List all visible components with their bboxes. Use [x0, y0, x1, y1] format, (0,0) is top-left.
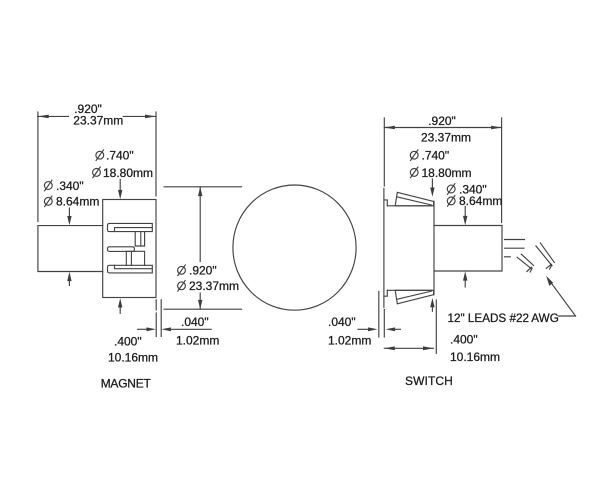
svg-text:.740": .740": [106, 149, 134, 163]
svg-text:.340": .340": [56, 179, 84, 193]
svg-text:23.37mm: 23.37mm: [421, 131, 471, 145]
svg-text:10.16mm: 10.16mm: [450, 350, 500, 364]
switch barrel: [434, 226, 502, 272]
switch top flange wedge: [395, 192, 433, 206]
magnet barrel: [38, 226, 103, 272]
dim switch .920 line: [384, 127, 501, 129]
dim switch d340 arrow down: [464, 207, 466, 220]
svg-text:.400": .400": [450, 333, 478, 347]
svg-text:8.64mm: 8.64mm: [56, 195, 99, 209]
label circle d.920: [178, 265, 186, 276]
svg-text:.040": .040": [181, 315, 209, 329]
dim switch d740 arrow up: [431, 304, 433, 312]
dim switch .920 extension lines: [383, 118, 385, 186]
svg-text:.040": .040": [328, 315, 356, 329]
switch flange base line top: [387, 205, 432, 207]
dim magnet d740 arrow down: [119, 180, 121, 194]
svg-text:.400": .400": [114, 335, 142, 349]
svg-text:12" LEADS #22 AWG: 12" LEADS #22 AWG: [448, 312, 559, 325]
dim switch d740 arrow down: [431, 179, 433, 191]
dim switch .040 leaders: [358, 328, 370, 330]
magnet bracket top-right pocket: [135, 232, 144, 246]
label magnet d.340: [44, 180, 52, 191]
svg-text:1.02mm: 1.02mm: [176, 334, 219, 348]
magnet inner bracket middle arm: [108, 247, 135, 252]
dim magnet .920 extension line left: [37, 112, 39, 222]
dim switch d340 arrow up: [464, 277, 466, 287]
switch lead dash 2: [505, 247, 525, 249]
dim magnet .040 leaders: [138, 328, 149, 330]
dim switch .400 line: [384, 347, 433, 349]
svg-text:23.37mm: 23.37mm: [73, 114, 123, 128]
svg-text:.920": .920": [189, 264, 217, 278]
switch lead dash 1: [505, 239, 525, 241]
label magnet d.740: [96, 150, 104, 161]
svg-text:8.64mm: 8.64mm: [459, 194, 502, 208]
dim magnet .920 extension line right: [155, 112, 157, 196]
magnet inner bracket top arm: [108, 223, 153, 231]
dim magnet .040 extension lines: [155, 300, 157, 310]
switch lead wire B: [536, 246, 552, 266]
dim switch .040 extension lines: [378, 292, 380, 338]
switch body front face: [383, 189, 385, 308]
switch top lip step: [384, 200, 387, 206]
switch bottom flange wedge: [395, 290, 433, 304]
dim circle bottom tick: [164, 308, 242, 310]
switch body right edge: [433, 201, 435, 294]
svg-text:10.16mm: 10.16mm: [108, 351, 158, 365]
dim magnet .920 line: [38, 115, 69, 117]
switch bottom lip step: [384, 290, 387, 296]
dim magnet d340 arrow down: [68, 208, 70, 220]
svg-text:.740": .740": [422, 149, 450, 163]
magnet inner bracket bottom arm: [108, 265, 153, 273]
magnet bracket bottom-right pocket: [126, 251, 144, 265]
svg-text:.920": .920": [428, 114, 456, 128]
svg-text:SWITCH: SWITCH: [405, 374, 453, 388]
switch lead dash 3: [505, 256, 511, 258]
dim magnet d340 arrow up: [68, 278, 70, 286]
svg-text:1.02mm: 1.02mm: [328, 334, 371, 348]
circle disc: [233, 185, 356, 310]
label switch d.740: [410, 150, 418, 161]
magnet body outline: [103, 200, 156, 298]
dim switch .400 extension line right: [435, 300, 437, 354]
svg-text:23.37mm: 23.37mm: [189, 279, 239, 293]
dim circle top tick: [164, 186, 242, 188]
svg-text:MAGNET: MAGNET: [101, 376, 152, 390]
leads label leader line: [559, 315, 576, 317]
svg-text:18.80mm: 18.80mm: [103, 166, 153, 180]
label switch d.340: [447, 184, 455, 195]
switch flange base line bottom: [387, 289, 432, 291]
dim circle vertical line: [199, 187, 201, 262]
switch lead wire A: [517, 257, 531, 268]
dim magnet d740 arrow up: [119, 303, 121, 313]
svg-text:18.80mm: 18.80mm: [422, 166, 472, 180]
